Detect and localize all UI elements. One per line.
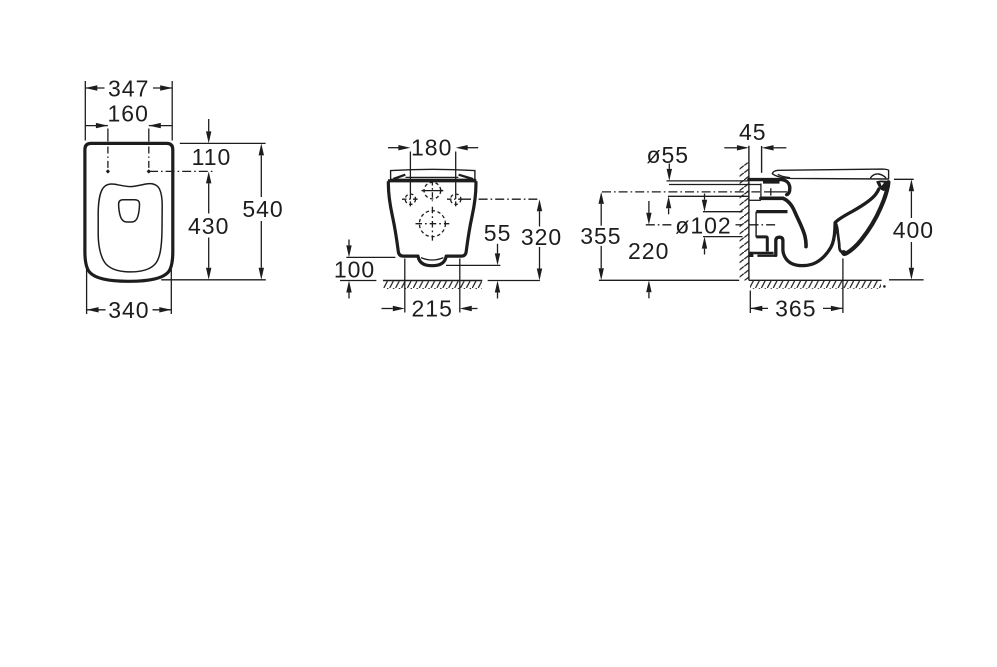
svg-text:45: 45 xyxy=(739,119,767,145)
svg-text:ø55: ø55 xyxy=(646,142,689,168)
svg-text:400: 400 xyxy=(893,217,934,243)
svg-text:365: 365 xyxy=(775,296,816,322)
svg-text:540: 540 xyxy=(242,196,283,222)
svg-text:100: 100 xyxy=(334,256,375,282)
svg-text:430: 430 xyxy=(188,213,229,239)
svg-text:110: 110 xyxy=(192,144,232,170)
svg-text:215: 215 xyxy=(412,296,453,322)
svg-text:340: 340 xyxy=(108,297,149,323)
svg-text:320: 320 xyxy=(521,224,562,250)
svg-text:ø102: ø102 xyxy=(675,213,731,239)
svg-text:355: 355 xyxy=(580,223,621,249)
svg-text:220: 220 xyxy=(628,238,669,264)
svg-text:55: 55 xyxy=(484,220,512,246)
svg-text:160: 160 xyxy=(108,101,149,127)
svg-text:180: 180 xyxy=(411,135,452,161)
svg-text:347: 347 xyxy=(108,75,149,101)
